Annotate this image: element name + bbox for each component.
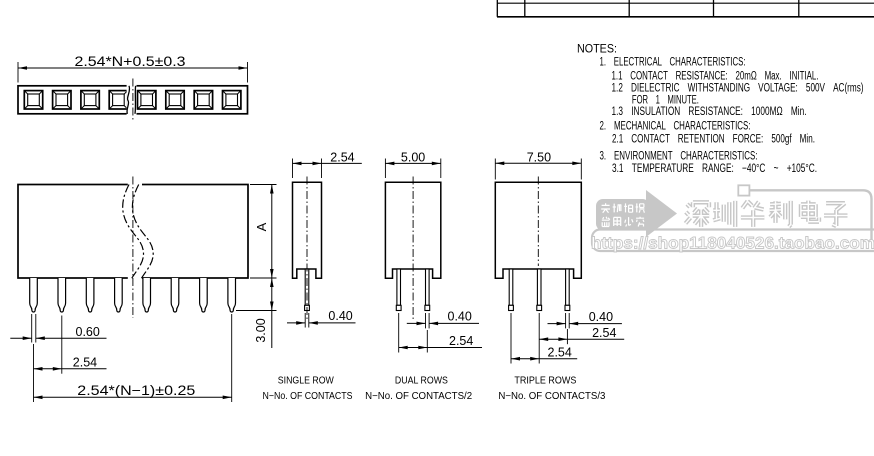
svg-text:0.60: 0.60 bbox=[76, 325, 100, 339]
dimension 0.40 triple rows pin bbox=[548, 310, 622, 328]
svg-text:3. ENVIRONMENT CHARACTERISTI: 3. ENVIRONMENT CHARACTERISTICS: bbox=[600, 150, 758, 162]
svg-text:1.1 CONTACT RESISTANCE: 20m: 1.1 CONTACT RESISTANCE: 20mΩ Max. INITIA… bbox=[612, 71, 819, 83]
svg-text:3.00: 3.00 bbox=[254, 318, 268, 342]
svg-text:1.2 DIELECTRIC WITHSTANDING: 1.2 DIELECTRIC WITHSTANDING VOLTAGE: 500… bbox=[612, 83, 864, 95]
front view break S-curve right bbox=[132, 185, 153, 279]
dimension 0.60 bbox=[10, 314, 106, 343]
svg-text:N−No. OF CONTACTS/2: N−No. OF CONTACTS/2 bbox=[365, 391, 472, 402]
dimension 0.40 dual rows pin bbox=[407, 310, 479, 329]
svg-text:2.1 CONTACT RETENTION FORCE: 2.1 CONTACT RETENTION FORCE: 500gf Min. bbox=[612, 133, 815, 145]
svg-text:2.54: 2.54 bbox=[449, 334, 473, 348]
triple rows side view body and pins bbox=[495, 182, 581, 278]
svg-text:7.50: 7.50 bbox=[527, 151, 551, 165]
svg-text:2.54: 2.54 bbox=[548, 345, 572, 359]
front view break gap bbox=[128, 183, 142, 280]
dimension 2.54*(N-1)±0.25 bbox=[34, 314, 232, 402]
top view housing strip bbox=[18, 86, 248, 114]
svg-text:DUAL ROWS: DUAL ROWS bbox=[395, 375, 448, 386]
watermark badge bbox=[596, 199, 650, 231]
dimension 2.54 triple rows pitch 1-2 bbox=[511, 313, 577, 364]
triple rows centerline bbox=[537, 177, 539, 267]
svg-text:TRIPLE ROWS: TRIPLE ROWS bbox=[514, 375, 576, 386]
front view body bbox=[18, 185, 248, 279]
front view pins bbox=[30, 278, 38, 312]
top view break torn edge left bbox=[127, 86, 130, 114]
dimension 2.54*N+0.5±0.3 bbox=[18, 54, 248, 83]
svg-text:FOR 1 MINUTE.: FOR 1 MINUTE. bbox=[632, 94, 699, 106]
watermark title text (vector hanzi) bbox=[686, 201, 848, 227]
watermark frame top line and right edge bbox=[750, 190, 872, 240]
svg-text:A: A bbox=[254, 222, 269, 231]
notes block bbox=[577, 44, 864, 175]
svg-text:https://shop118040526.taobao.c: https://shop118040526.taobao.com bbox=[591, 235, 874, 253]
svg-text:2.54: 2.54 bbox=[73, 356, 97, 370]
dimension 0.40 single row pin bbox=[287, 309, 356, 327]
svg-text:NOTES:: NOTES: bbox=[577, 44, 617, 56]
front view centerline bbox=[132, 177, 134, 319]
svg-text:N−No. OF CONTACTS/3: N−No. OF CONTACTS/3 bbox=[498, 391, 605, 402]
single row side view body and pin bbox=[293, 182, 322, 278]
svg-text:2.54*(N−1)±0.25: 2.54*(N−1)±0.25 bbox=[77, 383, 195, 398]
front view break S-curve left bbox=[123, 185, 144, 279]
watermark badge arrow bbox=[646, 190, 677, 237]
dimension 5.00 dual rows width bbox=[385, 151, 440, 178]
watermark url box bbox=[592, 230, 874, 252]
svg-text:2.54: 2.54 bbox=[592, 326, 616, 340]
dimension A bbox=[250, 185, 277, 279]
dimension 3.00 bbox=[236, 278, 277, 348]
top view break torn edge right bbox=[134, 86, 137, 114]
svg-text:N−No. OF CONTACTS: N−No. OF CONTACTS bbox=[263, 391, 353, 402]
svg-text:3.1 TEMPERATURE RANGE: −40°: 3.1 TEMPERATURE RANGE: −40°C ~ +105°C. bbox=[612, 163, 817, 175]
svg-text:5.00: 5.00 bbox=[401, 151, 425, 165]
watermark badge text (vector) bbox=[601, 203, 644, 226]
dual rows centerline bbox=[412, 177, 414, 322]
svg-text:2.54: 2.54 bbox=[330, 151, 354, 165]
dual rows side view body and pins bbox=[385, 182, 440, 278]
single row centerline bbox=[306, 177, 308, 321]
top view sockets bbox=[24, 91, 42, 109]
svg-text:2. MECHANICAL CHARACTERISTIC: 2. MECHANICAL CHARACTERISTICS: bbox=[600, 121, 751, 133]
watermark frame handle square bbox=[738, 185, 749, 195]
svg-text:1. ELECTRICAL CHARACTERISTIC: 1. ELECTRICAL CHARACTERISTICS: bbox=[600, 56, 746, 68]
dimension 2.54 single row width bbox=[293, 151, 362, 178]
svg-text:1.3 INSULATION RESISTANCE:: 1.3 INSULATION RESISTANCE: 1000MΩ Min. bbox=[612, 106, 807, 118]
dimension 2.54 dual rows pitch bbox=[399, 313, 482, 353]
svg-text:0.40: 0.40 bbox=[328, 309, 352, 323]
title block table bbox=[497, 0, 874, 17]
svg-text:0.40: 0.40 bbox=[589, 310, 613, 324]
svg-text:0.40: 0.40 bbox=[448, 310, 472, 324]
dimension 7.50 triple rows width bbox=[495, 151, 581, 180]
top view centerline bbox=[132, 79, 134, 122]
svg-text:SINGLE ROW: SINGLE ROW bbox=[278, 375, 334, 386]
dimension 2.54 pitch bbox=[34, 316, 107, 374]
top view break gap bbox=[127, 84, 137, 117]
dimension 2.54 triple rows pitch 2-3 bbox=[539, 313, 624, 364]
svg-text:2.54*N+0.5±0.3: 2.54*N+0.5±0.3 bbox=[75, 54, 186, 69]
